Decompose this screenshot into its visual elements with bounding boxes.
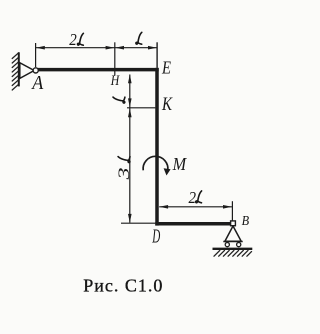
arrowhead left at H tick (l dim) <box>115 46 124 50</box>
moment M arc <box>143 156 168 170</box>
arrowhead left at column (2l dim) <box>159 205 168 209</box>
svg-text:M: M <box>172 154 187 174</box>
roller wheel left at B <box>225 243 229 247</box>
extension line above A <box>35 43 37 67</box>
extension line at H <box>114 42 116 75</box>
label l (top) <box>136 32 142 44</box>
bottom dimension line 2l <box>159 206 232 208</box>
K level line <box>127 107 155 109</box>
svg-text:3: 3 <box>116 167 133 181</box>
arrowhead up below K line (3l dim) <box>128 108 132 117</box>
extension line above E <box>156 42 158 68</box>
D level line <box>121 222 155 224</box>
pin circle at A <box>33 68 38 73</box>
column E to D <box>155 68 159 226</box>
arrowhead right at B tick (2l dim) <box>223 205 232 209</box>
top beam A to E <box>37 68 159 72</box>
svg-text:Рис. С1.0: Рис. С1.0 <box>83 276 163 296</box>
bottom beam D to B <box>155 222 231 226</box>
arrowhead up below beam (l dim) <box>128 74 132 83</box>
arrowhead right at H tick (2l dim) <box>106 46 115 50</box>
svg-text:2: 2 <box>189 188 197 207</box>
roller support triangle at B <box>225 226 241 241</box>
svg-text:2: 2 <box>69 30 77 49</box>
roller wheel right at B <box>237 243 241 247</box>
vertical dimension line (l and 3l) <box>129 75 131 223</box>
roller base line at B <box>223 241 242 243</box>
arrowhead left at A tick <box>36 46 45 50</box>
svg-text:H: H <box>110 73 121 89</box>
svg-text:A: A <box>30 72 44 94</box>
ground hatching at B <box>214 250 252 256</box>
ground line at B <box>213 248 253 250</box>
rotated label 3l <box>116 157 133 181</box>
rotated label l (between H and K) <box>113 97 125 103</box>
svg-text:D: D <box>152 226 161 248</box>
arrowhead down at K line (l dim) <box>128 98 132 107</box>
pin square at B <box>231 221 236 226</box>
wall line at support A <box>18 52 20 86</box>
label 2l (top) <box>69 30 83 49</box>
svg-text:K: K <box>161 95 173 115</box>
arrowhead down at D line (3l dim) <box>128 214 132 223</box>
svg-text:E: E <box>161 57 171 77</box>
extension line above B <box>231 201 233 221</box>
arrowhead right at E tick <box>148 46 157 50</box>
label 2l (bottom) <box>189 188 202 207</box>
top dimension line <box>36 47 158 49</box>
pin support triangle at A <box>20 63 34 79</box>
moment M arrowhead <box>164 168 171 175</box>
svg-text:B: B <box>242 214 250 229</box>
wall hatching at support A <box>12 53 18 90</box>
